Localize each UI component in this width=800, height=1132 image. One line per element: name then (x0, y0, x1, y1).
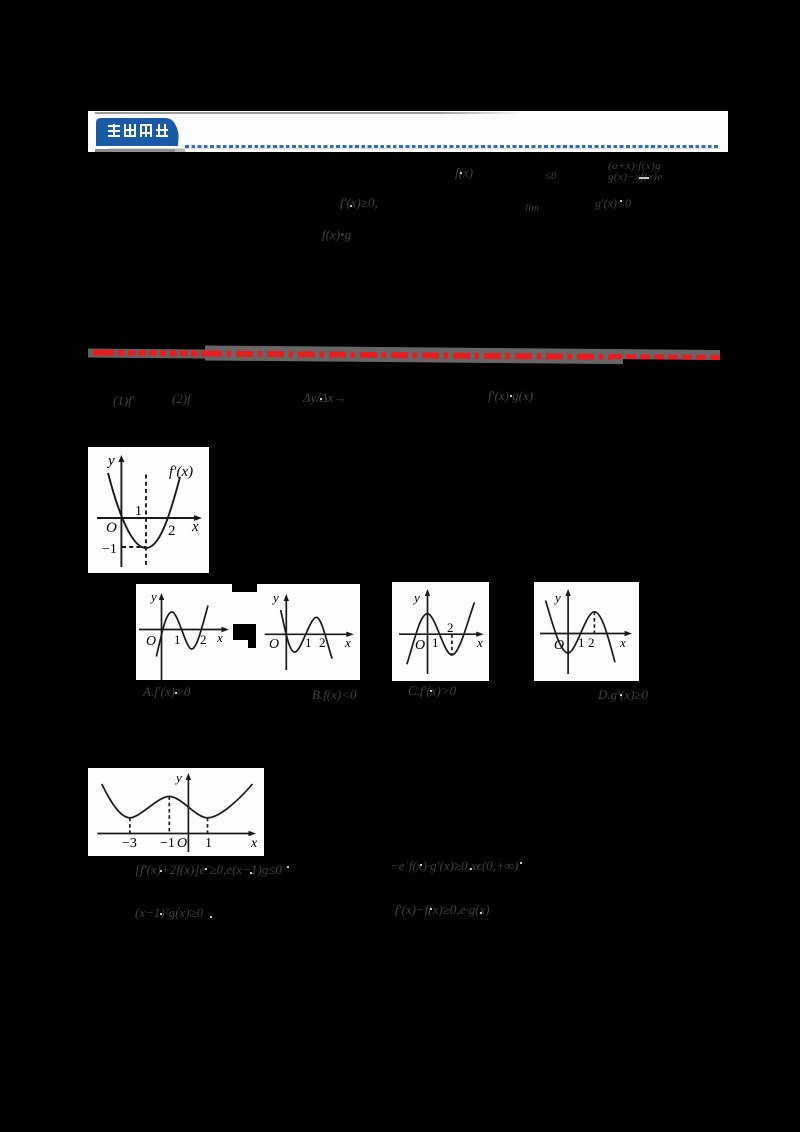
svg-text:x: x (216, 630, 223, 645)
graph 1 box: f'(x) parabola (88, 447, 209, 573)
badge 基础知识 (96, 117, 188, 147)
dim formula row 2 (113, 393, 135, 409)
dim formula block 1 (455, 165, 473, 181)
svg-text:−3: −3 (122, 836, 137, 851)
badge text (CJK strokes simulated) (108, 124, 168, 138)
graph 5 wide box (88, 768, 264, 856)
svg-text:f′(x): f′(x) (169, 464, 193, 480)
svg-text:1: 1 (305, 635, 312, 650)
bridge between A and B with black notches (232, 584, 258, 680)
dim formula rows 4/5 (135, 862, 282, 878)
graph row: C (392, 582, 489, 681)
svg-text:O: O (106, 520, 117, 536)
svg-text:x: x (191, 519, 199, 535)
svg-text:O: O (554, 638, 564, 653)
svg-text:2: 2 (319, 635, 326, 650)
svg-text:x: x (344, 635, 351, 650)
svg-text:y: y (149, 589, 157, 604)
svg-text:y: y (412, 590, 420, 605)
header band (88, 111, 728, 152)
svg-text:O: O (177, 836, 187, 851)
svg-text:1: 1 (174, 632, 181, 647)
svg-text:y: y (271, 590, 279, 605)
svg-text:x: x (250, 836, 258, 851)
svg-text:y: y (553, 590, 561, 605)
svg-text:1: 1 (578, 635, 585, 650)
graph row: D (534, 582, 639, 681)
svg-text:1: 1 (205, 836, 212, 851)
svg-text:O: O (146, 634, 156, 649)
svg-text:y: y (106, 453, 115, 469)
svg-text:x: x (619, 635, 626, 650)
badge shadow (95, 149, 185, 152)
blue dashed line (185, 145, 720, 148)
dim option labels (143, 684, 190, 700)
svg-text:2: 2 (588, 635, 595, 650)
svg-text:O: O (269, 637, 279, 652)
graph row: A (136, 584, 232, 680)
svg-text:1: 1 (432, 635, 439, 650)
svg-text:y: y (174, 770, 182, 785)
graph row: B (257, 584, 360, 680)
svg-text:−1: −1 (160, 836, 175, 851)
svg-text:x: x (476, 635, 483, 650)
svg-text:2: 2 (200, 632, 207, 647)
svg-text:1: 1 (135, 504, 142, 519)
svg-text:2: 2 (168, 523, 176, 539)
thin gray hairline (108, 148, 720, 149)
svg-text:2: 2 (447, 620, 454, 635)
red dotted rule (88, 344, 720, 367)
svg-text:O: O (415, 638, 425, 653)
top gray line (95, 112, 728, 114)
svg-text:−1: −1 (102, 542, 117, 557)
